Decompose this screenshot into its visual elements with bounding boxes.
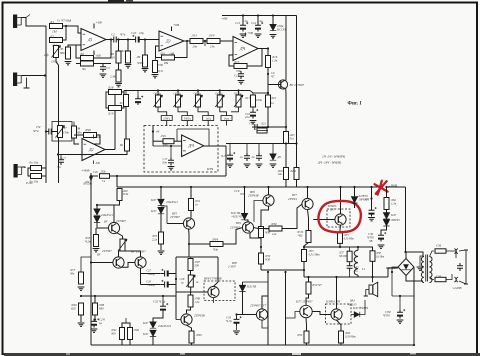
capacitor C24 1u	[91, 318, 99, 327]
transistor Q4 2T3107	[183, 218, 194, 229]
svg-text:+Ч0В: +Ч0В	[388, 184, 398, 188]
capacitor C10 series	[132, 35, 143, 43]
svg-text:ЧЗ0к: ЧЗ0к	[137, 61, 144, 65]
wire A3 output	[258, 48, 268, 50]
svg-text:Д2: Д2	[88, 147, 94, 152]
svg-text:КЛ7: КЛ7	[390, 213, 397, 217]
svg-text:ЧЗ0: ЧЗ0	[265, 257, 271, 261]
svg-text:250Гц: 250Гц	[163, 118, 171, 121]
ground under R37	[78, 287, 85, 290]
wire to C13	[240, 71, 242, 73]
svg-text:1,5к: 1,5к	[195, 300, 201, 304]
wire to C17	[170, 146, 172, 158]
wire Q14 base left	[176, 319, 181, 321]
node	[152, 130, 154, 132]
wire C3 top	[102, 63, 104, 66]
wire feedback node to R12	[154, 58, 157, 62]
svg-text:С1 Ч7/1Вф: С1 Ч7/1Вф	[57, 19, 72, 23]
wire C10 to A2	[143, 36, 160, 40]
svg-text:2н: 2н	[252, 155, 256, 159]
wire C33 down	[236, 326, 238, 330]
svg-text:Л13: Л13	[191, 34, 198, 38]
node	[170, 145, 172, 147]
svg-text:ЧЗ0: ЧЗ0	[99, 306, 105, 310]
wire +6V to Q1 collector	[285, 16, 287, 81]
capacitor C4 series	[46, 129, 54, 135]
node	[353, 186, 355, 188]
node	[307, 276, 309, 278]
node	[243, 186, 245, 188]
svg-text:20к: 20к	[193, 45, 198, 49]
wire Q9 emitter to Q10 base	[121, 263, 135, 268]
wire transformer tap	[420, 256, 424, 266]
resistor R9	[116, 70, 121, 82]
wire C7 stub	[60, 155, 62, 159]
wire A2 feedback loop	[175, 41, 188, 58]
svg-text:510: 510	[110, 56, 115, 60]
wire Q1 emitter vertical upper	[285, 89, 287, 132]
trimmer EQ1	[154, 95, 163, 107]
node	[385, 186, 387, 188]
resistor R11 430k	[143, 55, 148, 67]
wire R17 top link	[253, 92, 268, 94]
ground in filter block	[168, 167, 175, 170]
resistor R1 1M	[50, 24, 63, 29]
svg-text:2Т9ЧЗБ: 2Т9ЧЗБ	[248, 194, 259, 198]
svg-text:1кГц: 1кГц	[205, 118, 211, 121]
svg-text:СМ: СМ	[436, 244, 441, 248]
svg-text:Л1Ч: Л1Ч	[208, 34, 216, 38]
wire R55 to output bus	[303, 262, 305, 271]
wire rail B to R31	[190, 187, 192, 199]
wire R60 bottom	[340, 343, 342, 345]
svg-text:КЗЧ: КЗЧ	[206, 167, 214, 171]
resistor R41 300	[120, 328, 125, 340]
node	[116, 175, 118, 177]
wire A3 out down to R16	[267, 49, 269, 57]
wire jack3 out	[22, 167, 25, 168]
resistor R23 51k	[284, 132, 289, 144]
svg-text:Л9: Л9	[136, 55, 141, 59]
svg-text:500Гц: 500Гц	[184, 118, 192, 121]
node	[57, 153, 59, 155]
resistor R58 10	[370, 251, 375, 261]
capacitor EQ input	[135, 96, 143, 105]
wire feedback loop left down	[176, 129, 178, 141]
wire C35 down	[349, 270, 351, 277]
wire rail A	[110, 175, 227, 177]
node	[90, 175, 92, 177]
wire bus down to speaker	[372, 277, 374, 282]
svg-text:Р-Лх: Р-Лх	[25, 181, 33, 185]
svg-text:Ч7: Ч7	[365, 197, 369, 201]
transistor Q2 2T3307	[108, 222, 119, 233]
capacitor mains	[457, 263, 463, 271]
ground under R9	[115, 84, 122, 87]
svg-text:2хКЛ521: 2хКЛ521	[101, 213, 113, 217]
scan mark top edge	[108, 0, 124, 3]
wire R7 right	[94, 63, 112, 65]
svg-text:63н: 63н	[163, 161, 168, 165]
wire low rail	[81, 295, 176, 297]
box around trimmer R7	[52, 122, 72, 142]
wire A4 -supply	[93, 161, 95, 165]
wire Q13 collector to output bus	[336, 277, 338, 309]
transistor Q10	[135, 257, 146, 268]
diode VD6 KD521	[158, 207, 164, 213]
svg-text:1μ: 1μ	[99, 321, 103, 325]
trimmer bias 2	[186, 275, 195, 287]
wire rail B main supply	[117, 186, 383, 188]
node C26 blob	[89, 176, 92, 179]
wire R29 to diode chain	[97, 201, 120, 209]
svg-text:3В: 3В	[369, 239, 373, 243]
wire down to R8k	[125, 107, 127, 140]
svg-text:Л50 Ч7: Л50 Ч7	[311, 283, 322, 287]
svg-text:Л59: Л59	[296, 333, 303, 337]
resistor R54 4ohm	[306, 231, 311, 243]
wire rail to trimmer 5	[238, 91, 240, 96]
wire Q13 emitter to R60	[337, 320, 342, 331]
svg-text:ЛЧ2: ЛЧ2	[133, 328, 140, 332]
wire freq box 500Гц down	[186, 121, 188, 126]
wire trimmer 3 to box	[198, 107, 208, 116]
wire shunt row drop x=230	[229, 144, 231, 154]
frequency box 1кГц	[203, 116, 214, 121]
wire caps to low rail	[175, 285, 177, 297]
resistor R33 4.3k	[94, 235, 99, 247]
svg-text:ЛЧ9: ЛЧ9	[195, 333, 202, 337]
diode VD13 KD521	[150, 330, 156, 336]
wire R18 down to node row	[253, 107, 268, 127]
wire rail B extension right	[387, 186, 406, 188]
transistor Q8 KT823	[335, 214, 346, 225]
diode VD7	[241, 213, 247, 219]
wire diode pair to bottom rail	[152, 337, 154, 345]
wire R2 to trimmer R3	[55, 45, 57, 46]
svg-text:ЛЧ0: ЛЧ0	[84, 128, 91, 132]
wire A3 +supply stub	[245, 33, 247, 37]
svg-text:+6В: +6В	[247, 31, 253, 35]
svg-text:КЛ7: КЛ7	[142, 321, 149, 325]
wire to L1 top	[340, 246, 358, 248]
wire trimmer 2 to box	[178, 107, 187, 116]
resistor R42 300	[128, 328, 133, 340]
svg-text:+6В: +6В	[221, 17, 228, 21]
wire R59 bottom	[306, 343, 308, 345]
wire rail to R43	[94, 296, 96, 303]
svg-text:2хКЛ5219: 2хКЛ5219	[158, 324, 171, 328]
wire R40 down	[80, 315, 82, 322]
wire R21 row	[257, 130, 268, 132]
wire EQ rail to 3k	[125, 91, 127, 95]
wire R35 down	[160, 244, 162, 250]
transistor Q12	[300, 305, 312, 317]
wire Q2 collector	[114, 205, 120, 222]
ground shunt row	[227, 164, 234, 167]
svg-text:Л21: Л21	[260, 121, 266, 125]
resistor R38 430	[259, 227, 264, 238]
wire R16f to A2 input	[156, 46, 162, 58]
wire rail to trimmer 3	[197, 91, 199, 96]
svg-text:ЛЗЧ: ЛЗЧ	[270, 222, 277, 226]
resistor R8 510	[116, 51, 121, 63]
wire R8e to A4 input	[74, 138, 79, 144]
node	[339, 186, 341, 188]
wire R42 bottom	[129, 340, 131, 346]
wire down to R8	[118, 40, 120, 52]
wire A3 feedback in	[229, 55, 234, 66]
resistor R13 20k	[190, 39, 203, 44]
wire bridge top to transformer	[406, 252, 423, 259]
wire Q12 emitter to R59	[305, 318, 308, 332]
svg-text:+0В: +0В	[158, 63, 163, 67]
svg-text:ВУ8: ВУ8	[232, 262, 237, 265]
svg-text:0,51/3Вт: 0,51/3Вт	[309, 252, 320, 256]
resistor R pair jack3 b	[31, 174, 42, 179]
ground under R40	[78, 323, 85, 326]
wire R43 to C24	[94, 315, 96, 319]
svg-text:2μ: 2μ	[245, 19, 249, 23]
wire C4 to R7 box	[51, 131, 57, 133]
svg-text:Л60: Л60	[344, 331, 351, 335]
wire Q10 emitter down	[140, 268, 142, 284]
resistor R40e	[84, 133, 97, 138]
capacitor C11	[240, 22, 248, 31]
wire to R57	[340, 247, 350, 251]
wire loop right edge	[217, 257, 219, 282]
wire into Q1 base	[268, 84, 281, 86]
wire bridge left	[392, 267, 398, 272]
resistor R26 10k	[284, 168, 289, 180]
wire to R58	[358, 247, 373, 251]
svg-text:С10: С10	[131, 31, 137, 35]
svg-text:С12: С12	[249, 121, 255, 125]
transistor Q11	[256, 309, 267, 320]
node	[162, 295, 164, 297]
svg-text:ВУ8 ГТЧ0ЧБ: ВУ8 ГТЧ0ЧБ	[204, 277, 222, 281]
trimmer EQ3	[194, 95, 203, 107]
node	[96, 204, 98, 206]
svg-text:130к: 130к	[63, 131, 70, 135]
wire R24 to amp rail	[296, 180, 298, 188]
node	[204, 40, 206, 42]
svg-text:2Т3Ч07: 2Т3Ч07	[116, 219, 126, 223]
frequency box Зкгц	[221, 116, 232, 121]
svg-text:КЛ7: КЛ7	[142, 332, 149, 336]
wire A4 output vertical to EQ	[114, 92, 116, 150]
wire rail A to rail B	[116, 176, 118, 187]
node	[370, 197, 372, 199]
node	[303, 246, 305, 248]
wire to C34	[399, 296, 401, 310]
wire loop top edge	[176, 256, 218, 258]
wire Q11 emitter	[262, 320, 268, 328]
svg-text:L1: L1	[361, 267, 366, 271]
ground under R33	[93, 249, 100, 252]
svg-text:12к: 12к	[272, 232, 277, 236]
svg-text:+6В: +6В	[95, 135, 101, 139]
wire rail to zener	[272, 16, 274, 25]
wire PSU vertical	[405, 187, 407, 252]
wire Q14 emitter to R49	[187, 325, 192, 331]
input jack X1	[13, 15, 21, 29]
svg-text:-6В: -6В	[95, 161, 100, 165]
jack2 contact foot	[24, 87, 30, 89]
svg-text:Зк: Зк	[120, 101, 124, 105]
svg-text:ВАЗ: ВАЗ	[350, 300, 355, 303]
wire Q8 emitter down	[339, 225, 342, 233]
mains terminal bars	[464, 250, 468, 284]
wire A2 output	[184, 40, 190, 42]
dashed box around Q8	[327, 209, 350, 227]
svg-text:Д1: Д1	[87, 37, 93, 42]
node	[285, 142, 287, 144]
node	[267, 73, 269, 75]
svg-text:ЛВ1ЧЗ: ЛВ1ЧЗ	[390, 218, 400, 222]
transistor Q9 2T3307	[113, 257, 124, 268]
resistor R7 feedback	[81, 61, 94, 66]
wire to VD14	[242, 282, 244, 285]
trimmer R7 130k	[56, 126, 65, 138]
ground under C11	[240, 34, 247, 37]
resistor R17 100k	[251, 95, 256, 107]
node	[399, 295, 401, 297]
svg-text:2Т3Ч07 ГТ7: 2Т3Ч07 ГТ7	[250, 303, 267, 307]
wire jack1 to R1	[21, 18, 46, 27]
wire transformer to fuse 1	[430, 251, 434, 256]
node	[94, 295, 96, 297]
wire output bus drop	[303, 270, 305, 277]
node	[295, 142, 297, 144]
wire R50 to Q12 collector	[306, 294, 309, 305]
jack1 tip contact	[26, 15, 30, 18]
wire to R37	[81, 257, 91, 272]
op-amp A2	[159, 31, 184, 51]
svg-text:820: 820	[71, 306, 76, 310]
wire A1 output	[106, 39, 111, 41]
trimmer EQ2	[174, 95, 183, 107]
wire loop left edge	[175, 257, 177, 320]
wire Q13 to VD15	[351, 314, 354, 316]
svg-text:300: 300	[195, 264, 200, 268]
svg-text:КЗЧ23: КЗЧ23	[327, 204, 337, 208]
wire Q7 emitter to R54	[308, 210, 309, 231]
resistor R44 43k	[210, 242, 223, 247]
wire bridge left down	[391, 272, 393, 296]
wire freq box 250Гц down	[166, 121, 168, 126]
wire R8 to R9	[118, 63, 120, 71]
capacitor C32 4.7u	[160, 303, 168, 312]
node	[127, 38, 129, 40]
node	[260, 246, 262, 248]
diode VD10	[383, 213, 389, 219]
wire trimmer to Q9 collector	[119, 251, 123, 257]
wire Q5 collector to R34	[254, 228, 270, 229]
wire node stub	[204, 41, 206, 46]
resistor R12 4.7k	[153, 61, 158, 73]
wire Q12 to Q13 base	[312, 312, 331, 315]
resistor R pair jack3 a	[31, 166, 42, 171]
svg-text:КЛ7 НЧ00Ч: КЛ7 НЧ00Ч	[352, 306, 369, 310]
wire R54 to R55	[304, 243, 309, 250]
wire bridge right down to rail	[413, 267, 415, 345]
wire VD14 to Q11 base node	[242, 292, 244, 315]
svg-text:КЛ7: КЛ7	[150, 198, 157, 202]
wire Q15 collector to loop	[214, 282, 219, 286]
wire C29 right	[172, 284, 177, 286]
resistor R5 43k	[66, 47, 71, 59]
wire jack3 pair right	[42, 168, 47, 176]
op-amp A5	[182, 135, 204, 157]
wire R34 to Q7 base	[282, 204, 302, 229]
node	[267, 126, 269, 128]
resistor R14 13k	[207, 39, 220, 44]
wire rail to trimmer 2	[177, 91, 179, 96]
wire R62 to diodes	[386, 210, 388, 213]
node	[237, 89, 239, 91]
svg-text:С3: С3	[106, 66, 110, 70]
wire transformer to fuse 2	[430, 278, 434, 279]
svg-text:2хКЛ521: 2хКЛ521	[166, 200, 178, 204]
resistor R21 3.3k	[257, 128, 267, 133]
diode VD12 KD521	[150, 322, 156, 328]
wire node to filter R	[153, 140, 163, 142]
wire C30 column	[371, 199, 373, 210]
wire EQ rail	[124, 90, 250, 92]
capacitor C30 47u	[369, 207, 377, 216]
resistor R43 430	[93, 303, 98, 315]
wire to C29	[141, 284, 161, 286]
wire bottom rail	[91, 344, 414, 346]
wire Q6 emitter to R38 chain	[261, 206, 269, 226]
ground under C13	[238, 81, 245, 84]
capacitor C17 63n	[168, 158, 174, 166]
node	[267, 92, 269, 94]
diode VD8 1N4004	[351, 197, 357, 203]
svg-text:Ч700: Ч700	[383, 313, 390, 317]
wire A5 feedback loop	[177, 129, 209, 146]
ground under R10	[125, 65, 132, 68]
svg-text:~220В: ~220В	[452, 286, 462, 290]
ground under R11	[142, 69, 149, 72]
wire trimmer 5 down	[231, 107, 239, 112]
resistor R40 820	[79, 303, 84, 315]
svg-text:2Т3Ч07: 2Т3Ч07	[170, 215, 180, 219]
svg-text:Л10: Л10	[120, 49, 127, 53]
wire R48 to Q14	[187, 307, 191, 313]
wire jack3 pair left	[28, 168, 31, 176]
inductor L1	[354, 250, 358, 275]
resistor filter 430	[163, 139, 174, 144]
node	[242, 14, 244, 16]
wire down to R10	[127, 40, 129, 52]
svg-text:300: 300	[111, 331, 116, 335]
node	[413, 344, 415, 346]
svg-text:0,51/3Вт: 0,51/3Вт	[344, 238, 354, 241]
wire A2 +supply	[171, 27, 173, 32]
svg-text:1н: 1н	[240, 155, 244, 159]
resistor R24 12k	[294, 168, 299, 180]
svg-text:51к: 51к	[290, 137, 295, 141]
capacitor C36 4700u	[378, 232, 386, 241]
svg-text:+6В: +6В	[96, 21, 103, 25]
wire freq box Зкгц down	[226, 121, 228, 126]
node	[370, 186, 372, 188]
zener VD1	[270, 24, 276, 30]
ground under zener	[270, 35, 277, 38]
wire R41 R42 tops	[122, 323, 130, 327]
